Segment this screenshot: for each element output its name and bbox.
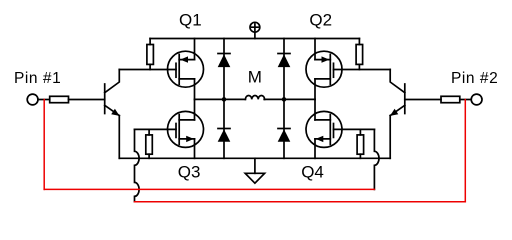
- wire common emitter/source line: [119, 157, 390, 159]
- diode D3 (lower left): [218, 99, 231, 158]
- wire Q1 gate line: [119, 69, 176, 71]
- resistor (Q4 gate pull-down): [357, 129, 364, 158]
- wire resistor to Q5 base: [69, 99, 105, 101]
- wire Q4 gate line: [334, 128, 375, 130]
- resistor R (Pin #2 base): [441, 96, 460, 102]
- resistor (Q1 gate pull-up): [147, 39, 154, 70]
- wire motor node left: [195, 98, 246, 100]
- transistor Q6 (right NPN BJT): [390, 70, 405, 159]
- junction node left: [222, 97, 227, 102]
- ground: [245, 158, 264, 183]
- diode D4 (lower right): [278, 99, 291, 158]
- transistor Q3 (N-MOSFET): [168, 99, 204, 158]
- wire resistor to Q6 base: [405, 99, 441, 101]
- wire red Pin #2 drop: [464, 100, 466, 202]
- svg-text:Q4: Q4: [301, 163, 324, 182]
- diode D1 (upper left): [218, 39, 231, 100]
- terminal Pin #2: [471, 94, 482, 105]
- wire Q4 gate drop with hop: [374, 129, 379, 189]
- wire red Pin #1 to Q4 gate: [44, 188, 374, 190]
- wire red Pin #1 drop: [43, 100, 45, 190]
- svg-text:M: M: [248, 68, 262, 87]
- wire motor node right: [264, 98, 315, 100]
- svg-text:Q3: Q3: [178, 163, 201, 182]
- motor M (inductor): [245, 96, 264, 100]
- wire Q3 gate line: [135, 128, 177, 130]
- wire Pin #2 to resistor: [460, 99, 471, 101]
- supply +V symbol: [250, 22, 260, 38]
- wire Pin #1 to resistor: [38, 99, 50, 101]
- terminal Pin #1: [27, 94, 38, 105]
- diode D2 (upper right): [278, 39, 291, 100]
- resistor (Q2 gate pull-up): [356, 39, 363, 70]
- svg-text:Pin #1: Pin #1: [14, 70, 61, 87]
- resistor (Q3 gate pull-down): [146, 129, 153, 158]
- wire top rail V+: [150, 38, 359, 40]
- svg-text:Q2: Q2: [309, 11, 332, 30]
- transistor Q1 (P-MOSFET): [168, 39, 204, 100]
- svg-text:Pin #2: Pin #2: [451, 70, 498, 87]
- transistor Q5 (left NPN BJT): [105, 70, 120, 159]
- wire red Pin #2 to Q3 gate: [135, 201, 466, 203]
- resistor R (Pin #1 base): [50, 96, 69, 102]
- transistor Q4 (N-MOSFET, mirrored): [306, 99, 342, 158]
- junction node right: [282, 97, 287, 102]
- svg-text:Q1: Q1: [179, 11, 202, 30]
- wire Q2 gate line: [334, 69, 391, 71]
- transistor Q2 (P-MOSFET, mirrored): [306, 39, 342, 100]
- wire Q3 gate drop with hops: [135, 129, 140, 201]
